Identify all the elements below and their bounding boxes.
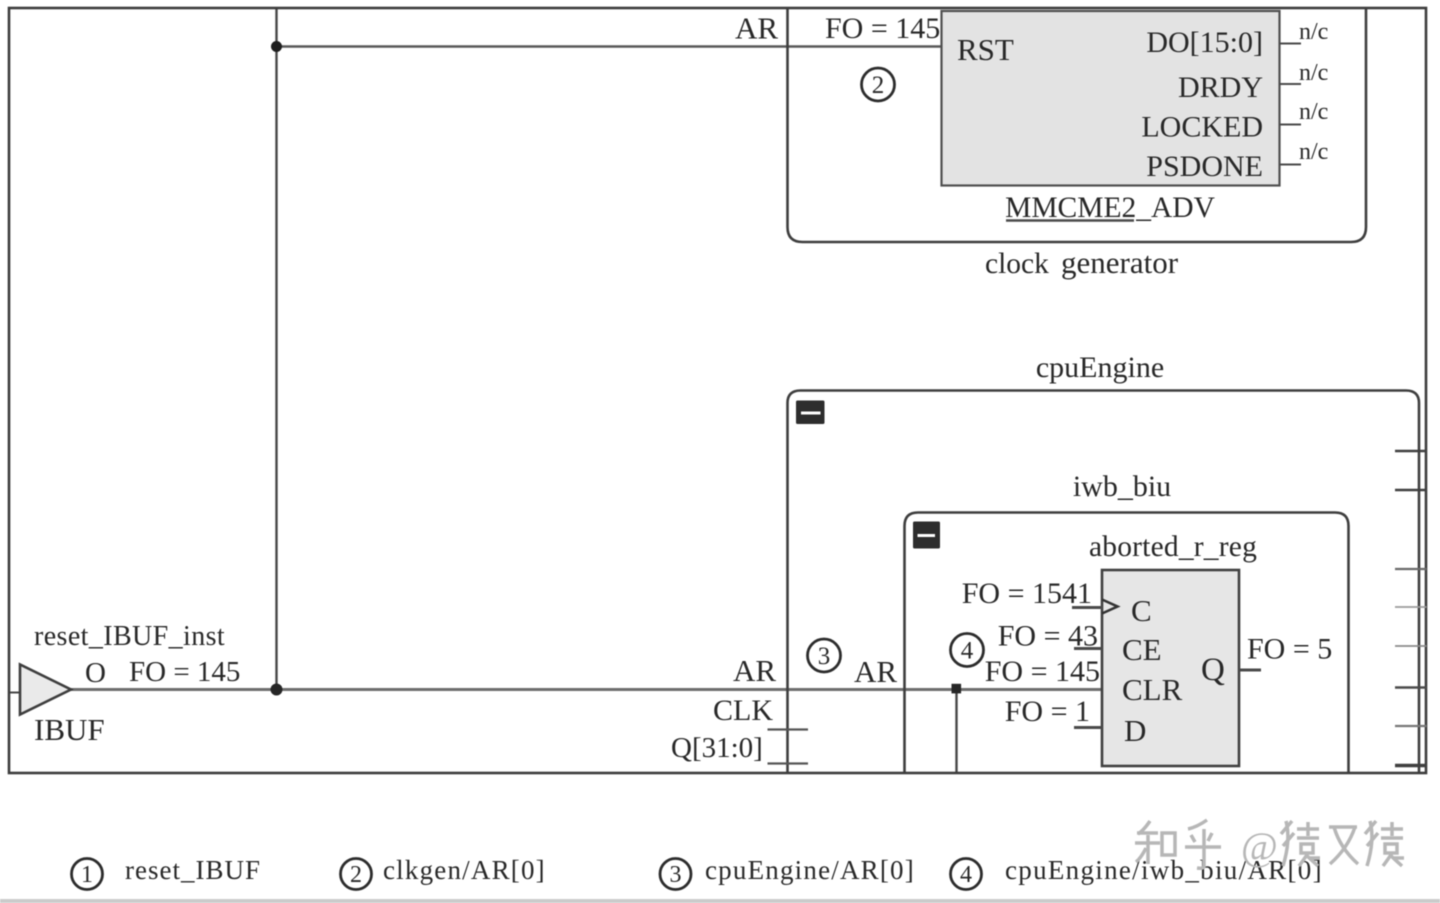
svg-text:4: 4 [961, 638, 974, 665]
svg-text:n/c: n/c [1299, 60, 1328, 86]
svg-text:reset_IBUF: reset_IBUF [125, 855, 261, 885]
svg-text:n/c: n/c [1299, 19, 1328, 45]
svg-text:3: 3 [818, 643, 831, 670]
svg-text:reset_IBUF_inst: reset_IBUF_inst [34, 621, 225, 652]
svg-text:Q[31:0]: Q[31:0] [671, 732, 763, 764]
svg-text:FO = 145: FO = 145 [985, 655, 1100, 688]
svg-text:C: C [1131, 593, 1152, 628]
svg-text:n/c: n/c [1299, 99, 1328, 125]
svg-text:FO = 145: FO = 145 [129, 656, 240, 688]
svg-text:clkgen/AR[0]: clkgen/AR[0] [383, 855, 546, 885]
svg-text:4: 4 [960, 862, 972, 888]
svg-text:AR: AR [854, 654, 897, 689]
svg-text:cpuEngine: cpuEngine [1036, 351, 1164, 384]
svg-text:clock: clock [985, 248, 1049, 280]
svg-text:FO = 5: FO = 5 [1247, 633, 1332, 666]
svg-text:AR: AR [735, 11, 778, 46]
svg-text:RST: RST [957, 32, 1014, 67]
svg-text:D: D [1124, 713, 1146, 748]
svg-text:@: @ [1241, 824, 1278, 869]
svg-text:aborted_r_reg: aborted_r_reg [1089, 531, 1257, 563]
svg-text:FO = 1: FO = 1 [1005, 695, 1090, 728]
svg-text:PSDONE: PSDONE [1146, 150, 1263, 183]
svg-text:iwb_biu: iwb_biu [1073, 470, 1171, 503]
svg-text:AR: AR [733, 653, 776, 688]
svg-text:LOCKED: LOCKED [1141, 111, 1263, 144]
svg-text:FO = 1541: FO = 1541 [962, 577, 1092, 610]
svg-text:CLK: CLK [713, 694, 773, 727]
svg-text:DO[15:0]: DO[15:0] [1146, 26, 1263, 59]
svg-text:FO = 145: FO = 145 [825, 12, 940, 45]
svg-text:DRDY: DRDY [1178, 71, 1263, 104]
svg-text:2: 2 [350, 862, 362, 888]
svg-text:FO = 43: FO = 43 [998, 620, 1098, 653]
svg-text:Q: Q [1201, 652, 1225, 688]
svg-text:n/c: n/c [1299, 139, 1328, 165]
svg-text:2: 2 [872, 72, 885, 99]
svg-text:IBUF: IBUF [34, 712, 105, 747]
svg-text:3: 3 [670, 862, 682, 888]
svg-text:O: O [85, 657, 106, 689]
svg-text:generator: generator [1061, 245, 1179, 280]
svg-text:1: 1 [81, 862, 93, 888]
svg-text:CLR: CLR [1122, 672, 1183, 707]
svg-text:cpuEngine/AR[0]: cpuEngine/AR[0] [705, 855, 915, 885]
svg-text:CE: CE [1122, 632, 1162, 667]
